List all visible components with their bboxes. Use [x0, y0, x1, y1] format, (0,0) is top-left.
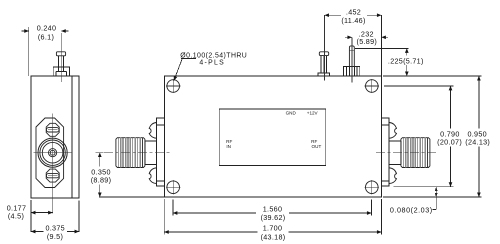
svg-text:0.080(2.03): 0.080(2.03) [390, 205, 433, 214]
dimension 0.350 (8.89) [91, 153, 165, 197]
svg-text:(4.5): (4.5) [8, 212, 24, 221]
dimension 0.080 (2.03) [390, 187, 438, 215]
main view box [164, 76, 381, 197]
mounting hole bottom-right [365, 180, 379, 194]
dimension 1.700 (43.18) [164, 199, 381, 242]
side view SMA flange plate [36, 118, 64, 188]
+12V terminal [343, 46, 359, 76]
dimension 0.790 (20.07) [437, 86, 462, 187]
svg-text:0.240: 0.240 [37, 24, 57, 33]
dimension .452 (11.46) [325, 7, 382, 76]
dimension 0.240 (6.1) [22, 24, 69, 77]
svg-text:(8.89): (8.89) [91, 176, 112, 185]
mounting hole top-right [365, 79, 379, 93]
svg-text:OUT: OUT [312, 144, 322, 149]
mounting hole top-left [166, 79, 180, 93]
right connector flange [381, 118, 396, 186]
svg-text:IN: IN [226, 144, 231, 149]
GND terminal centerline [324, 15, 326, 81]
svg-text:.225(5.71): .225(5.71) [388, 57, 424, 66]
right connector threads [401, 138, 430, 168]
side view pin [56, 52, 65, 72]
dimension 0.177 (4.5) [7, 200, 53, 232]
svg-text:(9.5): (9.5) [47, 232, 63, 241]
dimension 0.790 0.950 extension lines [383, 76, 482, 197]
dimension 1.560 (39.62) [173, 200, 372, 223]
svg-text:(20.07): (20.07) [437, 138, 462, 147]
left connector flange [149, 118, 164, 186]
left connector centerline [104, 152, 170, 154]
svg-text:(39.62): (39.62) [261, 213, 286, 222]
side view pin centerline [60, 33, 62, 82]
svg-text:GND: GND [286, 111, 297, 116]
svg-text:(11.46): (11.46) [341, 16, 365, 25]
left connector threads [116, 138, 145, 168]
side view centerlines [34, 114, 73, 214]
side view connector rings [38, 138, 67, 167]
svg-text:+12V: +12V [307, 111, 319, 116]
dimension 0.375 (9.5) [31, 201, 79, 242]
dimension .232 (5.89) [345, 30, 388, 47]
GND terminal [318, 52, 329, 76]
right connector centerline [376, 152, 437, 154]
hole callout text [174, 52, 247, 80]
left connector barrel [145, 141, 157, 165]
svg-text:(43.18): (43.18) [261, 233, 286, 242]
svg-text:(6.1): (6.1) [38, 33, 54, 42]
svg-text:(5.89): (5.89) [357, 37, 378, 46]
svg-text:4-PLS: 4-PLS [199, 60, 225, 67]
side view body [31, 76, 79, 198]
mounting hole bottom-left [166, 180, 180, 194]
label plate [219, 109, 326, 166]
right connector barrel [389, 141, 401, 165]
svg-text:1.700: 1.700 [263, 224, 283, 233]
+12V terminal centerline [351, 38, 353, 83]
side view top screw [46, 123, 59, 136]
dimension .225 (5.71) [355, 48, 424, 76]
svg-text:(24.13): (24.13) [465, 138, 490, 147]
side view bottom screw [46, 169, 59, 182]
side view feedthrough pedestal [53, 67, 69, 76]
dimension 0.950 (24.13) [465, 76, 490, 197]
